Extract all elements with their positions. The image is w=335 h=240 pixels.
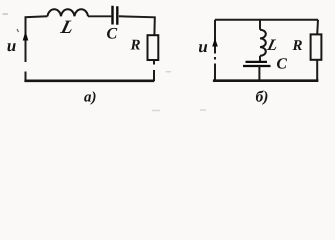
capacitor C (circuit b) xyxy=(243,62,271,66)
capacitor C (circuit a) xyxy=(113,6,118,25)
wire : circuit a top-right segment and corner down to resistor xyxy=(119,16,155,35)
label u (circuit b) xyxy=(199,44,207,52)
wire : circuit b bottom wire xyxy=(213,79,319,82)
wire : circuit a top-left segment xyxy=(25,16,48,17)
label б) caption of circuit b xyxy=(256,90,268,104)
label R (circuit a) xyxy=(131,40,140,50)
wire : circuit a left vertical branch xyxy=(25,18,27,82)
label L (circuit a) xyxy=(60,21,74,33)
wire : circuit a bottom wire xyxy=(24,79,154,82)
wire : circuit b top wire xyxy=(215,19,318,21)
wire : circuit a segment between L and C xyxy=(88,15,111,17)
label а) caption of circuit a xyxy=(84,91,95,105)
voltage source u arrow (circuit b) xyxy=(212,38,218,47)
wire : circuit a resistor bottom stub xyxy=(153,60,155,81)
inductor L (circuit b) xyxy=(260,30,266,56)
wire : circuit b capacitor bottom stub xyxy=(258,66,260,81)
wire : circuit b middle branch top stub xyxy=(259,20,261,30)
wire : circuit b resistor bottom stub xyxy=(316,60,318,81)
label u (circuit a) xyxy=(7,43,15,51)
voltage source u arrow (circuit a) xyxy=(23,31,29,41)
inductor L (circuit a) xyxy=(48,9,89,16)
resistor R (circuit b) xyxy=(311,34,322,59)
label L (circuit b) xyxy=(266,40,278,51)
label C (circuit b) xyxy=(277,58,287,68)
wire : circuit b stub between L and C xyxy=(259,56,261,62)
label C (circuit a) xyxy=(107,28,117,39)
wire : circuit b right vertical top segment xyxy=(316,20,319,35)
label R (circuit b) xyxy=(293,40,302,50)
wire : circuit b left vertical branch xyxy=(214,20,216,81)
scan artifact marks (faint) xyxy=(3,13,9,15)
resistor R (circuit a) xyxy=(148,35,159,60)
